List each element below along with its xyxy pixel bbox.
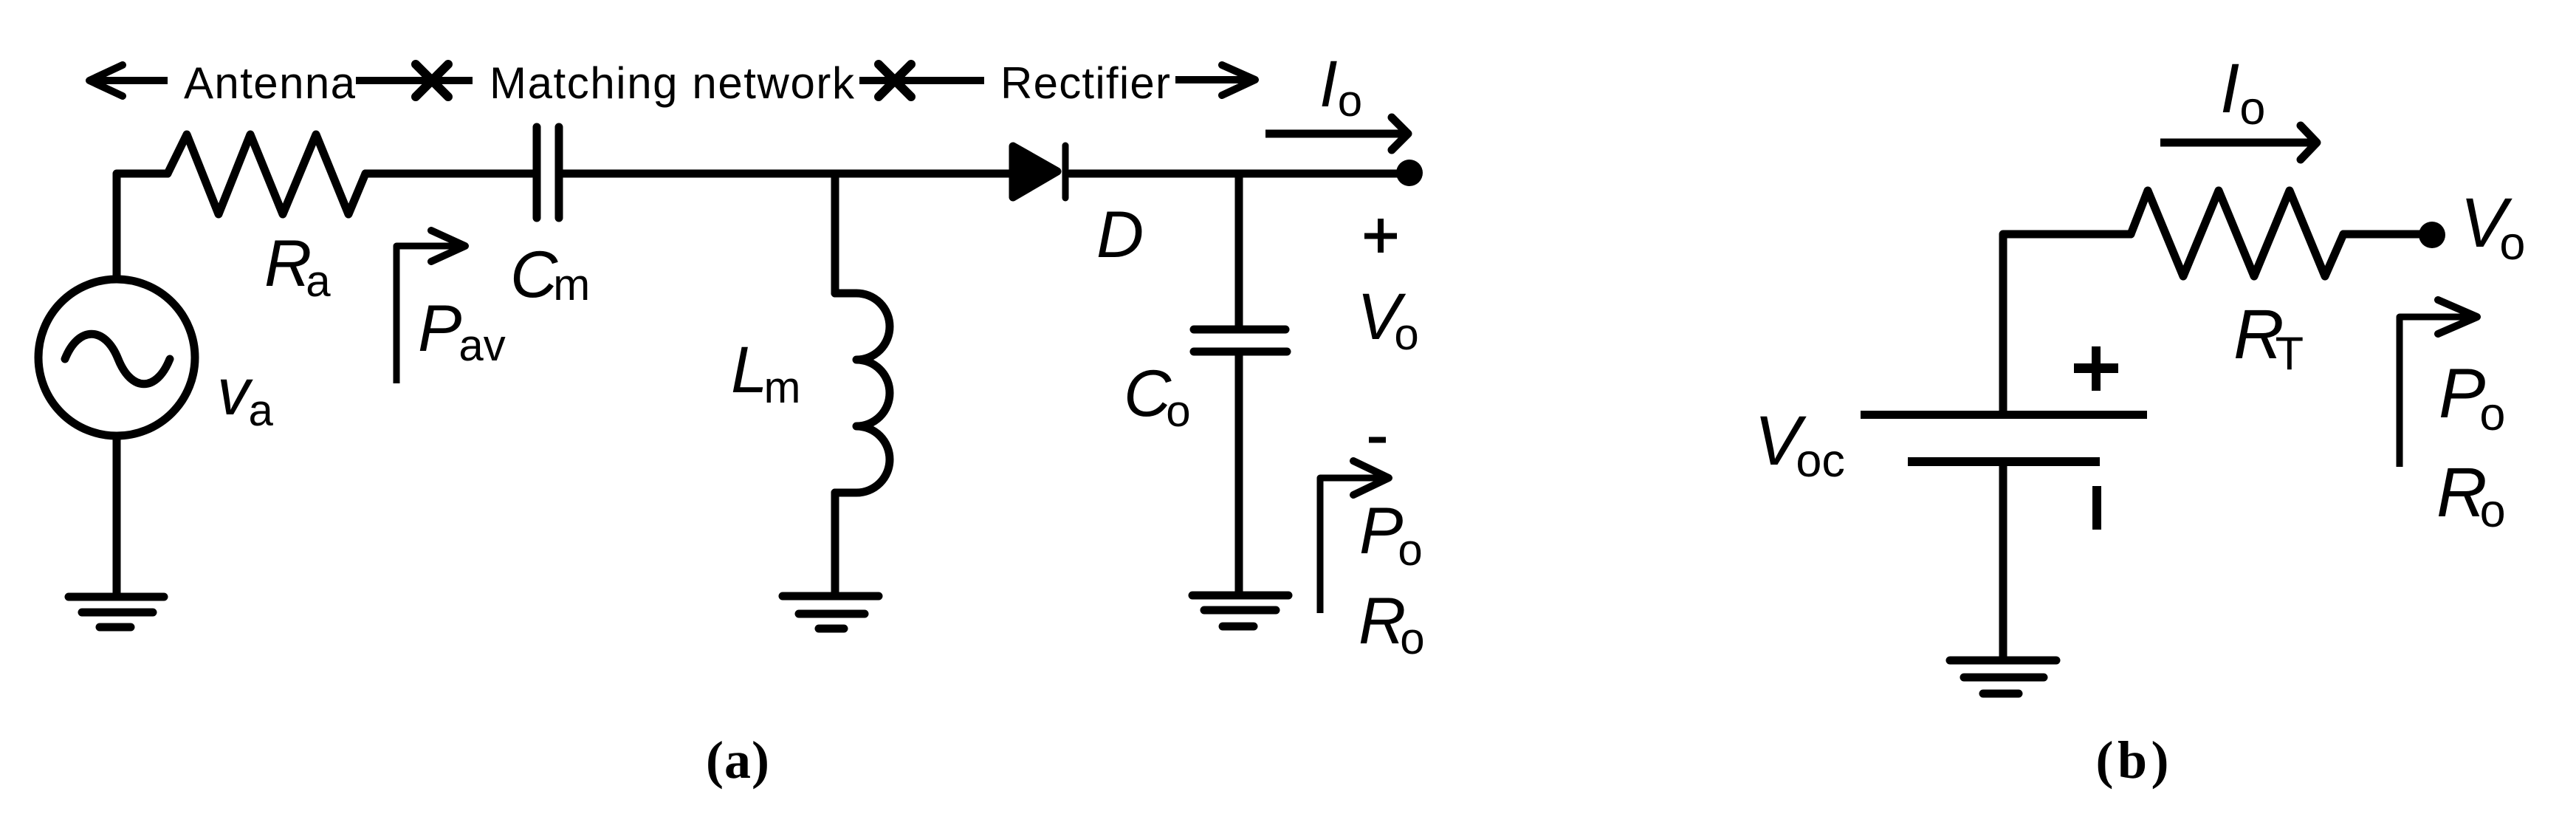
wire source top to resistor (117, 174, 168, 279)
section boundary X1 (416, 64, 448, 97)
plus sign (a) (1364, 219, 1397, 253)
section arrow right (Rectifier) (1175, 65, 1255, 95)
svg-text:(a): (a) (706, 731, 769, 790)
svg-text:Pav: Pav (418, 291, 506, 370)
svg-text:Antenna: Antenna (184, 58, 356, 108)
diode D (1013, 146, 1065, 198)
wire source bottom to ground (113, 437, 121, 593)
svg-text:Ra: Ra (264, 226, 331, 306)
ground under Lm (783, 596, 879, 629)
node junction Lm branch (831, 174, 839, 293)
output node dot (b) (2419, 222, 2445, 248)
battery Voc bottom plate (1908, 457, 2100, 466)
svg-text:D: D (1096, 197, 1144, 271)
resistor RT (2131, 191, 2343, 276)
svg-text:RT: RT (2233, 295, 2304, 380)
section arrow left (Antenna) (89, 65, 168, 96)
annotation arrow Po (a) (1320, 461, 1389, 613)
section divider line 2 (859, 77, 984, 84)
node junction Co branch (1235, 174, 1243, 326)
plus sign (b) (2074, 346, 2118, 391)
wire Cm to diode (563, 170, 1011, 178)
wire resistor to Cm (365, 170, 533, 178)
svg-text:Io: Io (1319, 47, 1362, 126)
svg-text:va: va (217, 355, 274, 435)
wire Lm to ground (831, 493, 839, 592)
svg-text:Lm: Lm (731, 332, 800, 412)
ground under Co (1192, 595, 1288, 626)
ground under va (69, 597, 164, 627)
capacitor Co (1194, 329, 1287, 352)
svg-text:(b): (b) (2096, 731, 2169, 790)
wire diode to output node (1070, 170, 1403, 178)
resistor Ra (168, 134, 365, 214)
svg-text:Ro: Ro (1359, 584, 1425, 663)
svg-text:Rectifier: Rectifier (1000, 58, 1170, 108)
battery Voc top plate (1861, 411, 2147, 419)
svg-text:Vo: Vo (2460, 184, 2525, 270)
current arrow Io (b) (2160, 126, 2317, 160)
inductor Lm (835, 293, 890, 493)
current arrow Io (a) (1265, 117, 1408, 150)
svg-text:Po: Po (2439, 355, 2505, 440)
svg-text:Co: Co (1124, 356, 1191, 436)
svg-text:Voc: Voc (1754, 402, 1845, 487)
svg-text:Cm: Cm (510, 237, 590, 311)
svg-text:Io: Io (2220, 49, 2265, 134)
wire RT to output node (2343, 230, 2425, 239)
minus sign (a) (1369, 437, 1386, 443)
ac source sine (65, 334, 170, 384)
wire Co to ground (1235, 355, 1243, 592)
section boundary X2 (879, 64, 911, 97)
minus bar (b) (2092, 486, 2101, 530)
wire battery to resistor RT (2003, 234, 2131, 411)
capacitor Cm (537, 127, 559, 218)
svg-text:Matching network: Matching network (490, 58, 855, 108)
wire battery to ground (1999, 466, 2007, 657)
output node dot (a) (1396, 160, 1423, 186)
svg-text:Ro: Ro (2436, 454, 2506, 537)
annotation arrow Po (b) (2400, 300, 2477, 467)
ground (b) (1950, 660, 2056, 694)
section divider line 1 (356, 77, 473, 84)
svg-text:Vo: Vo (1357, 279, 1419, 359)
annotation arrow Pav (396, 230, 465, 383)
ac source va (38, 279, 195, 436)
svg-text:Po: Po (1359, 493, 1423, 575)
